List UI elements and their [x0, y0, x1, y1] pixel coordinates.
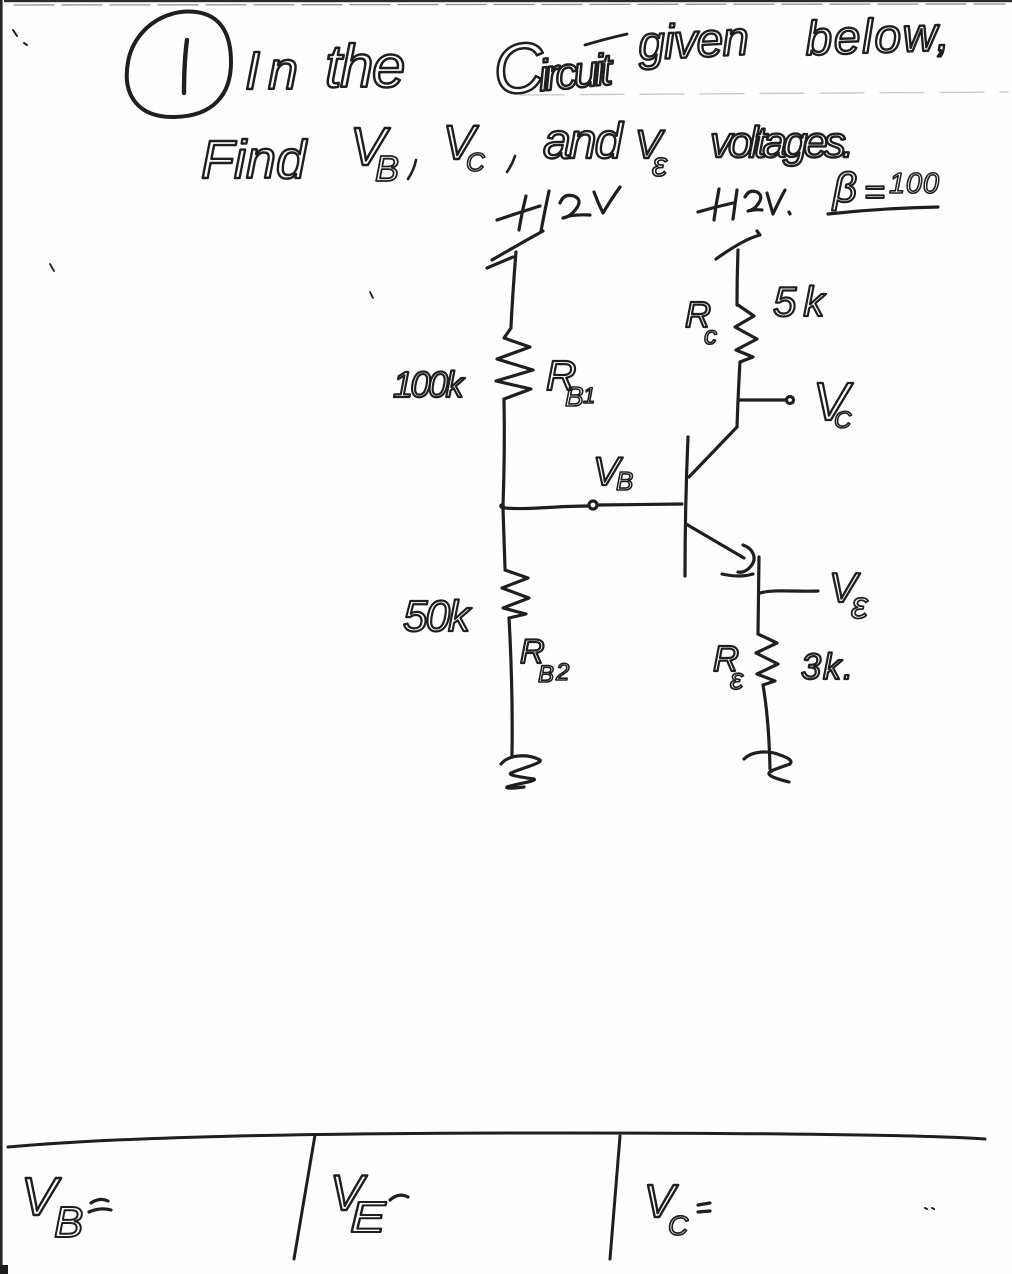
stray dots right [925, 1208, 934, 1209]
wire: RB2 to ground [509, 618, 512, 755]
svg-text:c: c [704, 320, 717, 350]
supply symbol T-bar (left) [487, 231, 543, 268]
answer area horizontal rule [8, 1133, 985, 1147]
label RB2 [520, 633, 569, 688]
beta underline [828, 207, 938, 214]
svg-text:voltages.: voltages. [710, 118, 850, 167]
handwritten text items (outline style) [245, 27, 616, 110]
svg-text:50k: 50k [403, 592, 472, 641]
scan corner bottom-left block [0, 1265, 8, 1274]
svg-text:1: 1 [583, 383, 595, 408]
svg-text:the: the [325, 33, 404, 100]
wire: node down to RB2 [503, 509, 505, 568]
label VE [829, 564, 869, 627]
wire: emitter down [758, 557, 759, 634]
svg-text:C: C [668, 1210, 689, 1241]
svg-text:ε: ε [851, 585, 869, 627]
resistor RE zigzag [756, 634, 778, 685]
supply label +12V. (right) : digit 2 [745, 191, 762, 211]
label VC [813, 372, 854, 434]
resistor RB1 zigzag [496, 328, 533, 399]
svg-text:B: B [538, 661, 554, 688]
svg-text:100k: 100k [393, 364, 466, 405]
transistor Q1 collector stroke [689, 427, 737, 477]
svg-text:ircuit: ircuit [536, 45, 616, 101]
label VB [593, 450, 633, 496]
supply label +12V (left) : V [594, 187, 620, 213]
wire: right supply to RC [737, 250, 738, 305]
answer label VB [21, 1167, 83, 1247]
VB probe open circle [589, 501, 597, 509]
svg-text:B: B [375, 148, 399, 189]
circled problem number 1 : digit [184, 40, 187, 93]
svg-text:given: given [637, 12, 749, 71]
svg-text:5k: 5k [773, 278, 831, 325]
svg-text:E: E [350, 1193, 387, 1241]
label 3k. [801, 646, 855, 687]
svg-text:=: = [864, 171, 885, 212]
svg-text:B: B [616, 466, 633, 496]
svg-text:B: B [565, 381, 584, 412]
answer label VE [330, 1165, 387, 1242]
label 50k [403, 592, 472, 641]
transistor Q1 emitter stroke [686, 524, 744, 558]
label 100k [393, 364, 466, 405]
answer VB equals squiggle [89, 1199, 111, 1212]
svg-text:C: C [834, 407, 852, 434]
scan edge top dashed line [14, 4, 1005, 5]
svg-text:In: In [245, 41, 306, 101]
speck near 100k [50, 264, 373, 298]
speck marks top-left [13, 30, 27, 45]
scan edge top bar [4, 0, 1012, 2]
svg-text:β: β [831, 164, 857, 211]
wire: RC to collector [737, 362, 740, 427]
circled problem number 1 : circle [127, 12, 231, 117]
svg-text:Find: Find [201, 130, 308, 190]
ground symbol (left) [501, 756, 540, 788]
faint scanner streak [520, 92, 1008, 95]
wire: base node to VB probe circle [504, 506, 588, 509]
supply symbol T-bar (right) [716, 231, 760, 259]
svg-text:B: B [54, 1198, 83, 1247]
svg-text:ε: ε [730, 663, 744, 696]
supply label +12V. (right) : digit 1 [733, 190, 737, 219]
wire: RB1 to base node [503, 400, 504, 506]
label 5k [773, 278, 831, 325]
answer VC equals squiggle [698, 1203, 710, 1212]
resistor RC zigzag [735, 305, 757, 362]
transistor Q1 emitter arrowhead [722, 545, 754, 576]
svg-text:2: 2 [555, 659, 569, 686]
label RB1 [546, 352, 595, 412]
scan edge left line [0, 0, 3, 1266]
small tick on base wire [554, 505, 557, 508]
node junction dot [499, 503, 505, 509]
svg-text:3k.: 3k. [801, 646, 855, 687]
label RC [685, 294, 717, 350]
supply label +12V (left) : digit 1 [541, 191, 549, 231]
answer label VC [644, 1175, 689, 1241]
supply label +12V (left) : plus [497, 196, 540, 230]
wire: VE tap [760, 591, 818, 593]
ground symbol (right) [744, 752, 791, 782]
transistor Q1 base bar [685, 437, 688, 576]
resistor RB2 zigzag [502, 570, 529, 618]
t-bar flourish of Circuit [585, 34, 627, 45]
comma after VC [507, 156, 515, 172]
supply label +12V. (right) : V and period [767, 190, 790, 214]
label RE [713, 638, 744, 696]
svg-text:and: and [543, 113, 625, 169]
wire: RE to ground [763, 685, 770, 769]
supply label +12V (left) : digit 2 [560, 195, 590, 218]
VC probe open circle [787, 397, 794, 404]
supply label +12V. (right) : plus [698, 189, 733, 220]
svg-text:below,: below, [805, 8, 952, 66]
answer divider 1 [294, 1135, 315, 1259]
wire: collector to VC probe [739, 398, 785, 401]
comma after VB [408, 160, 416, 179]
svg-text:C: C [466, 147, 485, 177]
wire: left supply to RB1 [511, 252, 516, 326]
answer divider 2 [610, 1136, 620, 1259]
svg-text:ε: ε [652, 146, 668, 184]
answer VE approx squiggle [390, 1195, 408, 1200]
wire: VB probe to transistor base [598, 504, 682, 505]
svg-text:100: 100 [889, 168, 940, 200]
